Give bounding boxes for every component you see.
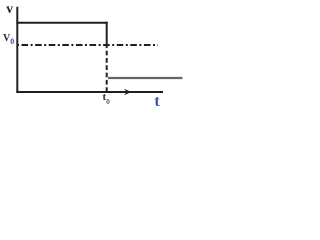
- waveform step drop at t0 (solid part): [106, 22, 108, 48]
- waveform high level line: [16, 22, 107, 24]
- V0 dash-dot level line: [17, 44, 158, 46]
- dashed guide line below step at t0: [106, 48, 108, 91]
- label t (x-axis): [154, 94, 159, 110]
- arrowhead on t axis: [124, 89, 132, 95]
- x-axis (t axis): [16, 91, 163, 93]
- label t0 (time of step): [103, 92, 110, 105]
- label v (y-axis): [6, 2, 13, 16]
- low level gray line after t0: [108, 77, 183, 79]
- y-axis (v axis): [16, 7, 18, 93]
- label V0 (level): [3, 34, 14, 46]
